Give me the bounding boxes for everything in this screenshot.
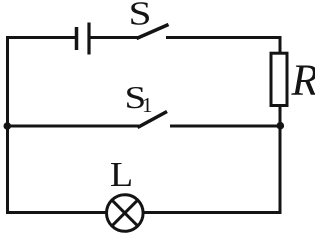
- switch S blade: [137, 25, 169, 39]
- wire: bottom left segment to lamp: [6, 211, 107, 214]
- wire: middle branch right segment: [170, 125, 280, 128]
- wire: left vertical: [6, 36, 9, 214]
- wire: top left segment to battery: [6, 36, 76, 39]
- battery cell: [77, 23, 90, 55]
- wire: battery to switch S pivot: [91, 36, 139, 39]
- wire: resistor to bottom-right corner: [279, 106, 282, 215]
- node: left junction dot: [4, 122, 12, 130]
- wire: lamp to bottom-right corner: [143, 211, 282, 214]
- svg-text:1: 1: [142, 93, 153, 117]
- switch S1 blade: [138, 112, 168, 128]
- node: right junction dot: [277, 122, 285, 130]
- resistor R box: [271, 53, 287, 105]
- wire: middle branch left segment: [8, 125, 140, 128]
- lamp L symbol: [107, 195, 144, 232]
- svg-text:R: R: [291, 56, 316, 105]
- svg-text:L: L: [110, 154, 133, 193]
- svg-text:S: S: [128, 0, 151, 32]
- wire: switch S to top-right corner and down to resistor: [166, 38, 280, 54]
